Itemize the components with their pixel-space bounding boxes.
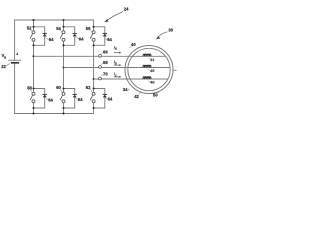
svg-text:64: 64 [108, 96, 113, 101]
svg-text:22: 22 [1, 64, 6, 69]
svg-text:70: 70 [103, 72, 108, 77]
svg-text:48: 48 [150, 80, 155, 85]
current arrow up [16, 52, 18, 55]
wire leg3 segments [93, 20, 95, 114]
svg-text:64: 64 [49, 37, 54, 42]
diode D3 top [94, 27, 107, 46]
switch S58 [30, 92, 35, 103]
svg-text:Ia: Ia [114, 45, 117, 51]
svg-text:42: 42 [134, 94, 139, 99]
terminal circles [99, 54, 102, 57]
switch S56 [90, 31, 95, 42]
diode labels 64 [48, 36, 113, 102]
diode D1 top [34, 27, 47, 46]
svg-text:58: 58 [27, 86, 32, 91]
svg-text:VB: VB [2, 53, 7, 59]
motor outer circle (stator) [125, 46, 173, 94]
svg-text:64: 64 [79, 36, 84, 41]
switch label leaders [30, 30, 92, 93]
current labels Ia Ib Ic [114, 45, 117, 78]
svg-text:30: 30 [168, 28, 173, 33]
svg-text:60: 60 [56, 85, 61, 90]
svg-text:64: 64 [48, 98, 53, 103]
wire leg2 segments [63, 20, 65, 114]
svg-text:Ib: Ib [114, 60, 117, 66]
svg-text:64: 64 [107, 37, 112, 42]
svg-text:50: 50 [153, 93, 158, 98]
battery 22 [8, 52, 21, 63]
diode D4 bottom [34, 89, 47, 109]
wire bottom bus [15, 113, 94, 115]
phase line C [94, 78, 169, 80]
shaft tick [173, 69, 177, 71]
coil 48 [143, 77, 151, 79]
phase line B [64, 67, 171, 69]
svg-text:68: 68 [103, 60, 108, 65]
svg-text:64: 64 [78, 97, 83, 102]
coil 44 [143, 54, 151, 56]
junction dots [32, 19, 94, 115]
svg-text:52: 52 [27, 25, 32, 30]
diode D6 bottom [94, 89, 107, 109]
svg-text:34: 34 [123, 87, 128, 92]
switch S62 [90, 92, 95, 103]
svg-text:62: 62 [86, 85, 91, 90]
svg-text:24: 24 [124, 7, 129, 12]
switch S54 [60, 31, 65, 42]
wire left vertical upper [14, 20, 16, 60]
three inverter legs [34, 20, 94, 114]
diode D2 top [64, 27, 77, 46]
switch S60 [60, 92, 65, 103]
motor inner circle [128, 48, 170, 90]
svg-text:Ic: Ic [114, 71, 117, 77]
diode D5 bottom [64, 89, 77, 109]
wire top bus [15, 19, 94, 21]
svg-text:56: 56 [86, 26, 91, 31]
phase line A [34, 55, 166, 57]
switch S52 circles+blade [30, 31, 35, 42]
svg-text:46: 46 [150, 68, 155, 73]
wire leg1 segments [33, 20, 35, 114]
wire left vertical lower [14, 63, 16, 114]
coil 46 [143, 65, 151, 67]
svg-text:66: 66 [103, 49, 108, 54]
svg-text:44: 44 [150, 57, 155, 62]
svg-text:40: 40 [131, 42, 136, 47]
